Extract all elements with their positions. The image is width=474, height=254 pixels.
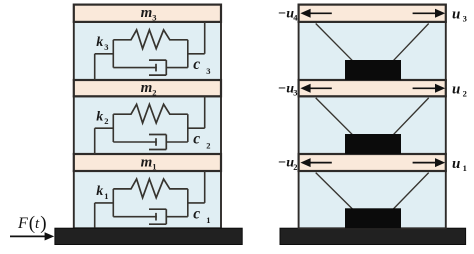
svg-text:3: 3 [463, 14, 467, 24]
svg-text:1: 1 [104, 191, 108, 201]
brace right story 3 [393, 24, 429, 61]
arrow right u3 [413, 12, 436, 14]
svg-text:3: 3 [152, 12, 156, 22]
svg-text:c: c [193, 205, 200, 222]
svg-text:−u: −u [278, 156, 294, 171]
svg-text:m: m [141, 5, 153, 21]
arrow right u2 [413, 87, 436, 89]
svg-text:c: c [193, 131, 200, 148]
spring k3 [113, 30, 188, 49]
svg-text:1: 1 [152, 162, 156, 172]
damper device story 3 [345, 60, 401, 80]
mass bar m2 [74, 80, 221, 96]
svg-text:2: 2 [293, 162, 297, 172]
mass bar m1 [74, 154, 221, 171]
svg-text:3: 3 [293, 88, 297, 98]
wire right rise story 1 [204, 171, 206, 203]
brace right story 2 [393, 98, 429, 135]
svg-text:u: u [452, 7, 460, 23]
arrow left -u2 [309, 162, 332, 164]
wire right rise story 3 [204, 22, 206, 54]
right frame story 2 (blue box) [299, 96, 446, 154]
node line left story 1 [112, 189, 114, 217]
arrow left -u3 [309, 87, 332, 89]
svg-text:): ) [40, 213, 46, 234]
floor slab 3 (right) [299, 5, 446, 22]
ground base right [280, 228, 466, 244]
arrow left -u4 [309, 12, 332, 14]
left frame story 2 (blue box) [74, 96, 221, 154]
floor slab 1 (right) [299, 154, 446, 171]
brace right story 1 [393, 173, 429, 210]
damper c3 [113, 67, 157, 69]
svg-text:2: 2 [206, 140, 210, 150]
brace left story 2 [316, 98, 353, 135]
svg-text:−u: −u [278, 6, 294, 21]
wire right connector story 2 [188, 127, 205, 129]
damper c1 [113, 216, 157, 218]
svg-text:k: k [96, 109, 103, 124]
svg-text:m: m [141, 154, 153, 170]
wire left drop story 2 [94, 128, 96, 154]
ground base left [55, 228, 242, 244]
wire left step story 2 [95, 127, 114, 129]
damper device story 2 [345, 134, 401, 154]
wire left drop story 3 [94, 54, 96, 80]
svg-text:3: 3 [104, 42, 108, 52]
svg-text:2: 2 [152, 87, 156, 97]
arrow right u1 [413, 162, 436, 164]
wire right connector story 3 [188, 53, 205, 55]
brace left story 3 [316, 24, 353, 61]
svg-text:F: F [17, 215, 28, 232]
wire left step story 3 [95, 53, 114, 55]
right frame story 3 (blue box) [299, 22, 446, 80]
wire left step story 1 [95, 202, 114, 204]
brace left story 1 [316, 173, 353, 210]
svg-text:3: 3 [206, 66, 210, 76]
wire right rise story 2 [204, 96, 206, 128]
svg-text:2: 2 [104, 116, 108, 126]
left frame story 1 (blue box) [74, 171, 221, 228]
damper device story 1 [345, 208, 401, 228]
svg-text:−u: −u [278, 81, 294, 96]
svg-text:1: 1 [206, 215, 210, 225]
svg-text:4: 4 [293, 13, 298, 23]
svg-text:2: 2 [463, 89, 467, 99]
svg-text:1: 1 [463, 163, 467, 173]
svg-text:k: k [96, 184, 103, 199]
left frame story 3 (blue box) [74, 22, 221, 80]
node line right story 2 [187, 114, 189, 142]
floor slab 2 (right) [299, 80, 446, 96]
svg-text:u: u [452, 82, 460, 98]
node line right story 1 [187, 189, 189, 217]
svg-text:k: k [96, 35, 103, 50]
node line left story 3 [112, 40, 114, 68]
svg-text:u: u [452, 156, 460, 172]
damper c2 [113, 141, 157, 143]
force arrow F(t) [10, 235, 46, 237]
wire right connector story 1 [188, 202, 205, 204]
wire left drop story 1 [94, 203, 96, 228]
svg-text:c: c [193, 56, 200, 73]
right frame story 1 (blue box) [299, 171, 446, 228]
spring k1 [113, 179, 188, 198]
node line left story 2 [112, 114, 114, 142]
spring k2 [113, 104, 188, 123]
node line right story 3 [187, 40, 189, 68]
mass bar m3 [74, 5, 221, 22]
svg-text:m: m [141, 80, 153, 96]
